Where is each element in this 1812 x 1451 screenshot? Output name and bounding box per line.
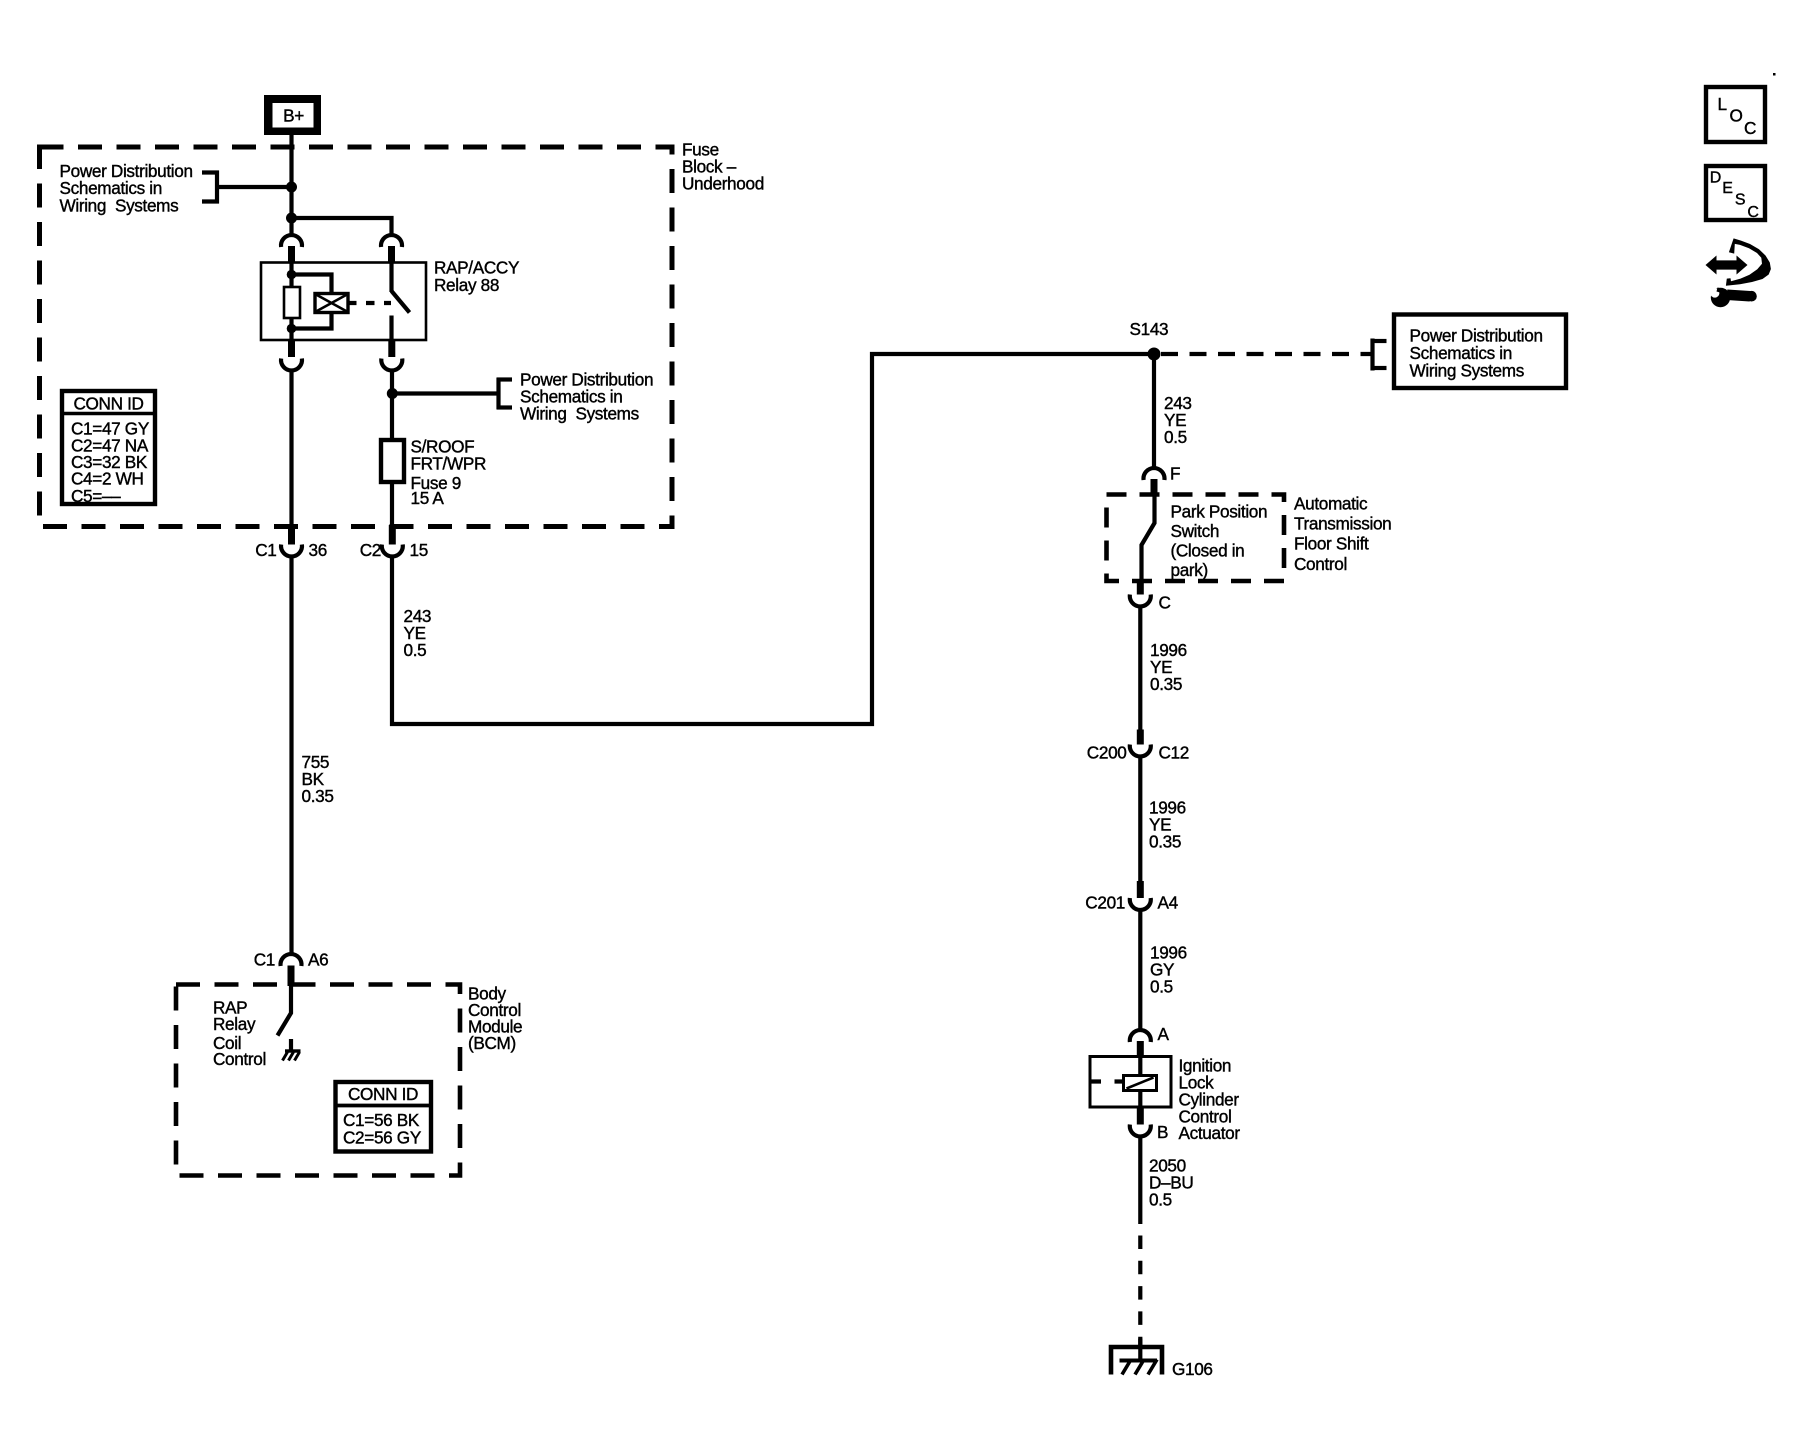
svg-text:Wiring Systems: Wiring Systems [520, 404, 639, 424]
svg-text:C1: C1 [254, 950, 275, 970]
svg-text:Relay 88: Relay 88 [434, 275, 499, 295]
reference bracket: Power Distribution Schematics in Wiring Systems (top left) [215, 171, 219, 204]
ground G106 symbol [1138, 1339, 1142, 1360]
dashed wire S143 to Power Distribution ref [1161, 352, 1371, 356]
connector cavity, relay pin (right top) [381, 235, 402, 247]
svg-text:0.5: 0.5 [1164, 427, 1187, 447]
svg-text:Actuator: Actuator [1179, 1123, 1241, 1143]
B+ battery terminal box [264, 95, 321, 135]
svg-text:C12: C12 [1159, 743, 1189, 763]
wire relay to Fuse 9 [390, 370, 394, 441]
pin A terminal [1137, 1041, 1144, 1057]
relay switch blade [392, 291, 410, 313]
svg-text:CONN ID: CONN ID [348, 1084, 418, 1104]
BCM pin A6 terminal [288, 966, 295, 987]
connector cavity, relay pin (left bottom) [281, 359, 302, 371]
svg-text:0.5: 0.5 [1149, 1190, 1172, 1210]
DESC hyperlink box [1706, 166, 1765, 220]
svg-text:Relay: Relay [213, 1014, 256, 1034]
svg-text:B+: B+ [283, 106, 304, 126]
relay coil (box with X) [315, 294, 348, 313]
connector cavity, relay pin (right bottom) [381, 359, 402, 371]
svg-text:C1: C1 [255, 540, 276, 560]
svg-text:D: D [1710, 170, 1722, 187]
svg-text:E: E [1722, 180, 1733, 197]
connector cavity C1-A6 [281, 954, 302, 966]
svg-text:Underhood: Underhood [682, 174, 764, 194]
svg-text:park): park) [1171, 560, 1208, 580]
svg-text:(Closed in: (Closed in [1171, 541, 1245, 561]
connector cavity C201-A4 [1130, 898, 1151, 910]
svg-text:0.35: 0.35 [1150, 674, 1182, 694]
relay pin terminal (left bottom) [288, 340, 295, 357]
svg-text:Transmission: Transmission [1294, 514, 1391, 534]
svg-text:S143: S143 [1130, 319, 1169, 339]
svg-text:G106: G106 [1172, 1359, 1213, 1379]
relay actuation link (dashed) [348, 301, 391, 305]
wire relay to connector C1-36 [289, 370, 293, 529]
relay coil left conductor [289, 263, 293, 340]
relay pin terminal (left top) [288, 246, 295, 263]
BCM internal ground [285, 1049, 301, 1052]
svg-text:C: C [1744, 118, 1756, 138]
svg-text:Wiring Systems: Wiring Systems [1410, 361, 1524, 381]
wire 243 YE, C2-15 to splice S143 [392, 354, 1149, 724]
connector cavity C2-15 [382, 545, 403, 557]
svg-text:A: A [1158, 1024, 1170, 1044]
node: junction to Power Distribution ref [286, 182, 297, 193]
resistor (relay coil suppression) [284, 287, 300, 318]
svg-text:Floor Shift: Floor Shift [1294, 534, 1369, 554]
connector cavity C1-36 [281, 545, 302, 557]
svg-text:CONN ID: CONN ID [73, 394, 143, 414]
svg-text:Control: Control [1294, 554, 1347, 574]
connector C2 pin 15 terminal [389, 525, 396, 545]
wire bracket to node [217, 185, 292, 189]
node: coil bottom [287, 324, 297, 334]
actuator internal conductor (bottom) [1138, 1091, 1142, 1108]
Body Control Module dashed box [176, 985, 460, 1176]
CONN ID table (fuse block) [62, 391, 155, 504]
relay pin terminal (right top) [388, 246, 395, 263]
connector C200 pin C12 terminal [1137, 730, 1144, 745]
dashed wire to ground G106 [1138, 1236, 1142, 1346]
relay switch common conductor [389, 263, 393, 292]
svg-text:Automatic: Automatic [1294, 494, 1368, 514]
svg-text:15 A: 15 A [411, 488, 445, 508]
svg-text:15: 15 [410, 540, 428, 560]
svg-text:C5=––: C5=–– [71, 486, 121, 506]
stray ink dot [1773, 73, 1776, 76]
svg-text:B: B [1157, 1122, 1168, 1142]
connector C201 pin A4 terminal [1137, 881, 1144, 898]
Park Position Switch dashed box (Automatic Transmission Floor Shift Control) [1107, 495, 1285, 582]
actuator internal conductor (top) [1138, 1057, 1142, 1076]
LOC hyperlink box [1706, 87, 1765, 142]
svg-text:0.35: 0.35 [1149, 832, 1181, 852]
reference bracket: Power Distribution Schematics in Wiring Systems (fuse feed) [392, 391, 499, 395]
navigation icon: double arrow [1714, 260, 1740, 269]
svg-text:C2=56 GY: C2=56 GY [343, 1128, 422, 1148]
wire 2050 D-BU pin B to ground [1138, 1137, 1142, 1225]
actuator pin B terminal [1137, 1107, 1144, 1125]
park position switch contact [1142, 495, 1155, 581]
svg-text:C200: C200 [1087, 743, 1127, 763]
CONN ID table (BCM) [336, 1082, 432, 1152]
svg-text:36: 36 [309, 540, 327, 560]
reference box: Power Distribution Schematics in Wiring Systems [1394, 315, 1566, 389]
svg-text:C201: C201 [1085, 893, 1125, 913]
actuator solenoid element [1124, 1076, 1157, 1091]
connector cavity, relay pin (left top) [281, 235, 302, 247]
svg-text:0.35: 0.35 [302, 786, 334, 806]
wire node to relay pin 5 [292, 218, 392, 235]
svg-text:S: S [1735, 192, 1746, 209]
fuse S/ROOF FRT/WPR Fuse 9 15 A [381, 440, 404, 482]
svg-text:O: O [1730, 106, 1743, 126]
reference bracket: Power Distribution Schematics in Wiring Systems (right) [1370, 339, 1374, 371]
svg-text:C: C [1747, 204, 1759, 221]
connector cavity C200-C12 [1130, 745, 1151, 757]
wire 1996 GY, C201 to actuator pin A [1138, 910, 1142, 1030]
svg-text:Wiring Systems: Wiring Systems [60, 196, 179, 216]
wire 1996 YE pin C to C200 [1138, 607, 1142, 731]
wire 1996 YE, C200 to C201 [1138, 757, 1142, 882]
wire fuse to connector C2-15 [390, 482, 394, 528]
node: coil top [287, 270, 297, 280]
wire coil branch top [292, 275, 332, 294]
svg-text:Park Position: Park Position [1171, 502, 1268, 522]
relay pin terminal (right bottom) [388, 340, 395, 357]
navigation icon: wrench [1711, 288, 1730, 307]
svg-text:L: L [1718, 94, 1727, 114]
connector cavity, pin A [1130, 1030, 1151, 1042]
connector cavity, pin B [1130, 1125, 1151, 1137]
wire B+ to relay pin 1 [289, 135, 293, 235]
wire coil branch bottom [292, 313, 332, 329]
Fuse Block - Underhood dashed outline [40, 147, 673, 527]
svg-text:F: F [1170, 464, 1180, 484]
relay switch contact conductor [389, 316, 393, 341]
navigation icon: routing swoosh [1726, 238, 1771, 285]
park switch pin C terminal [1137, 581, 1144, 595]
actuator: Ignition Lock Cylinder Control Actuator box [1090, 1057, 1171, 1108]
splice S143 [1148, 348, 1161, 361]
wire 243 YE to park switch pin F [1152, 354, 1156, 468]
svg-text:C2: C2 [360, 540, 381, 560]
svg-text:(BCM): (BCM) [468, 1033, 516, 1053]
actuator mechanical link (dashed) [1090, 1079, 1124, 1083]
pin F terminal [1151, 479, 1158, 496]
svg-text:Switch: Switch [1171, 521, 1220, 541]
wire 755 BK to BCM [289, 556, 293, 954]
node: junction to relay pin 3 branch [286, 213, 297, 224]
svg-text:0.5: 0.5 [404, 640, 427, 660]
relay RAP/ACCY Relay 88 box [261, 263, 426, 341]
svg-text:Control: Control [213, 1049, 266, 1069]
svg-text:A6: A6 [308, 950, 328, 970]
connector cavity, pin F [1144, 468, 1165, 480]
connector cavity, pin C [1130, 595, 1151, 607]
svg-text:0.5: 0.5 [1150, 977, 1173, 997]
BCM RAP relay coil control switch [278, 986, 292, 1036]
node: junction to Power Distribution ref (fuse feed) [387, 388, 398, 399]
svg-text:FRT/WPR: FRT/WPR [411, 454, 487, 474]
connector C1 pin 36 terminal [288, 527, 295, 545]
svg-text:C: C [1159, 593, 1171, 613]
svg-text:A4: A4 [1158, 893, 1179, 913]
